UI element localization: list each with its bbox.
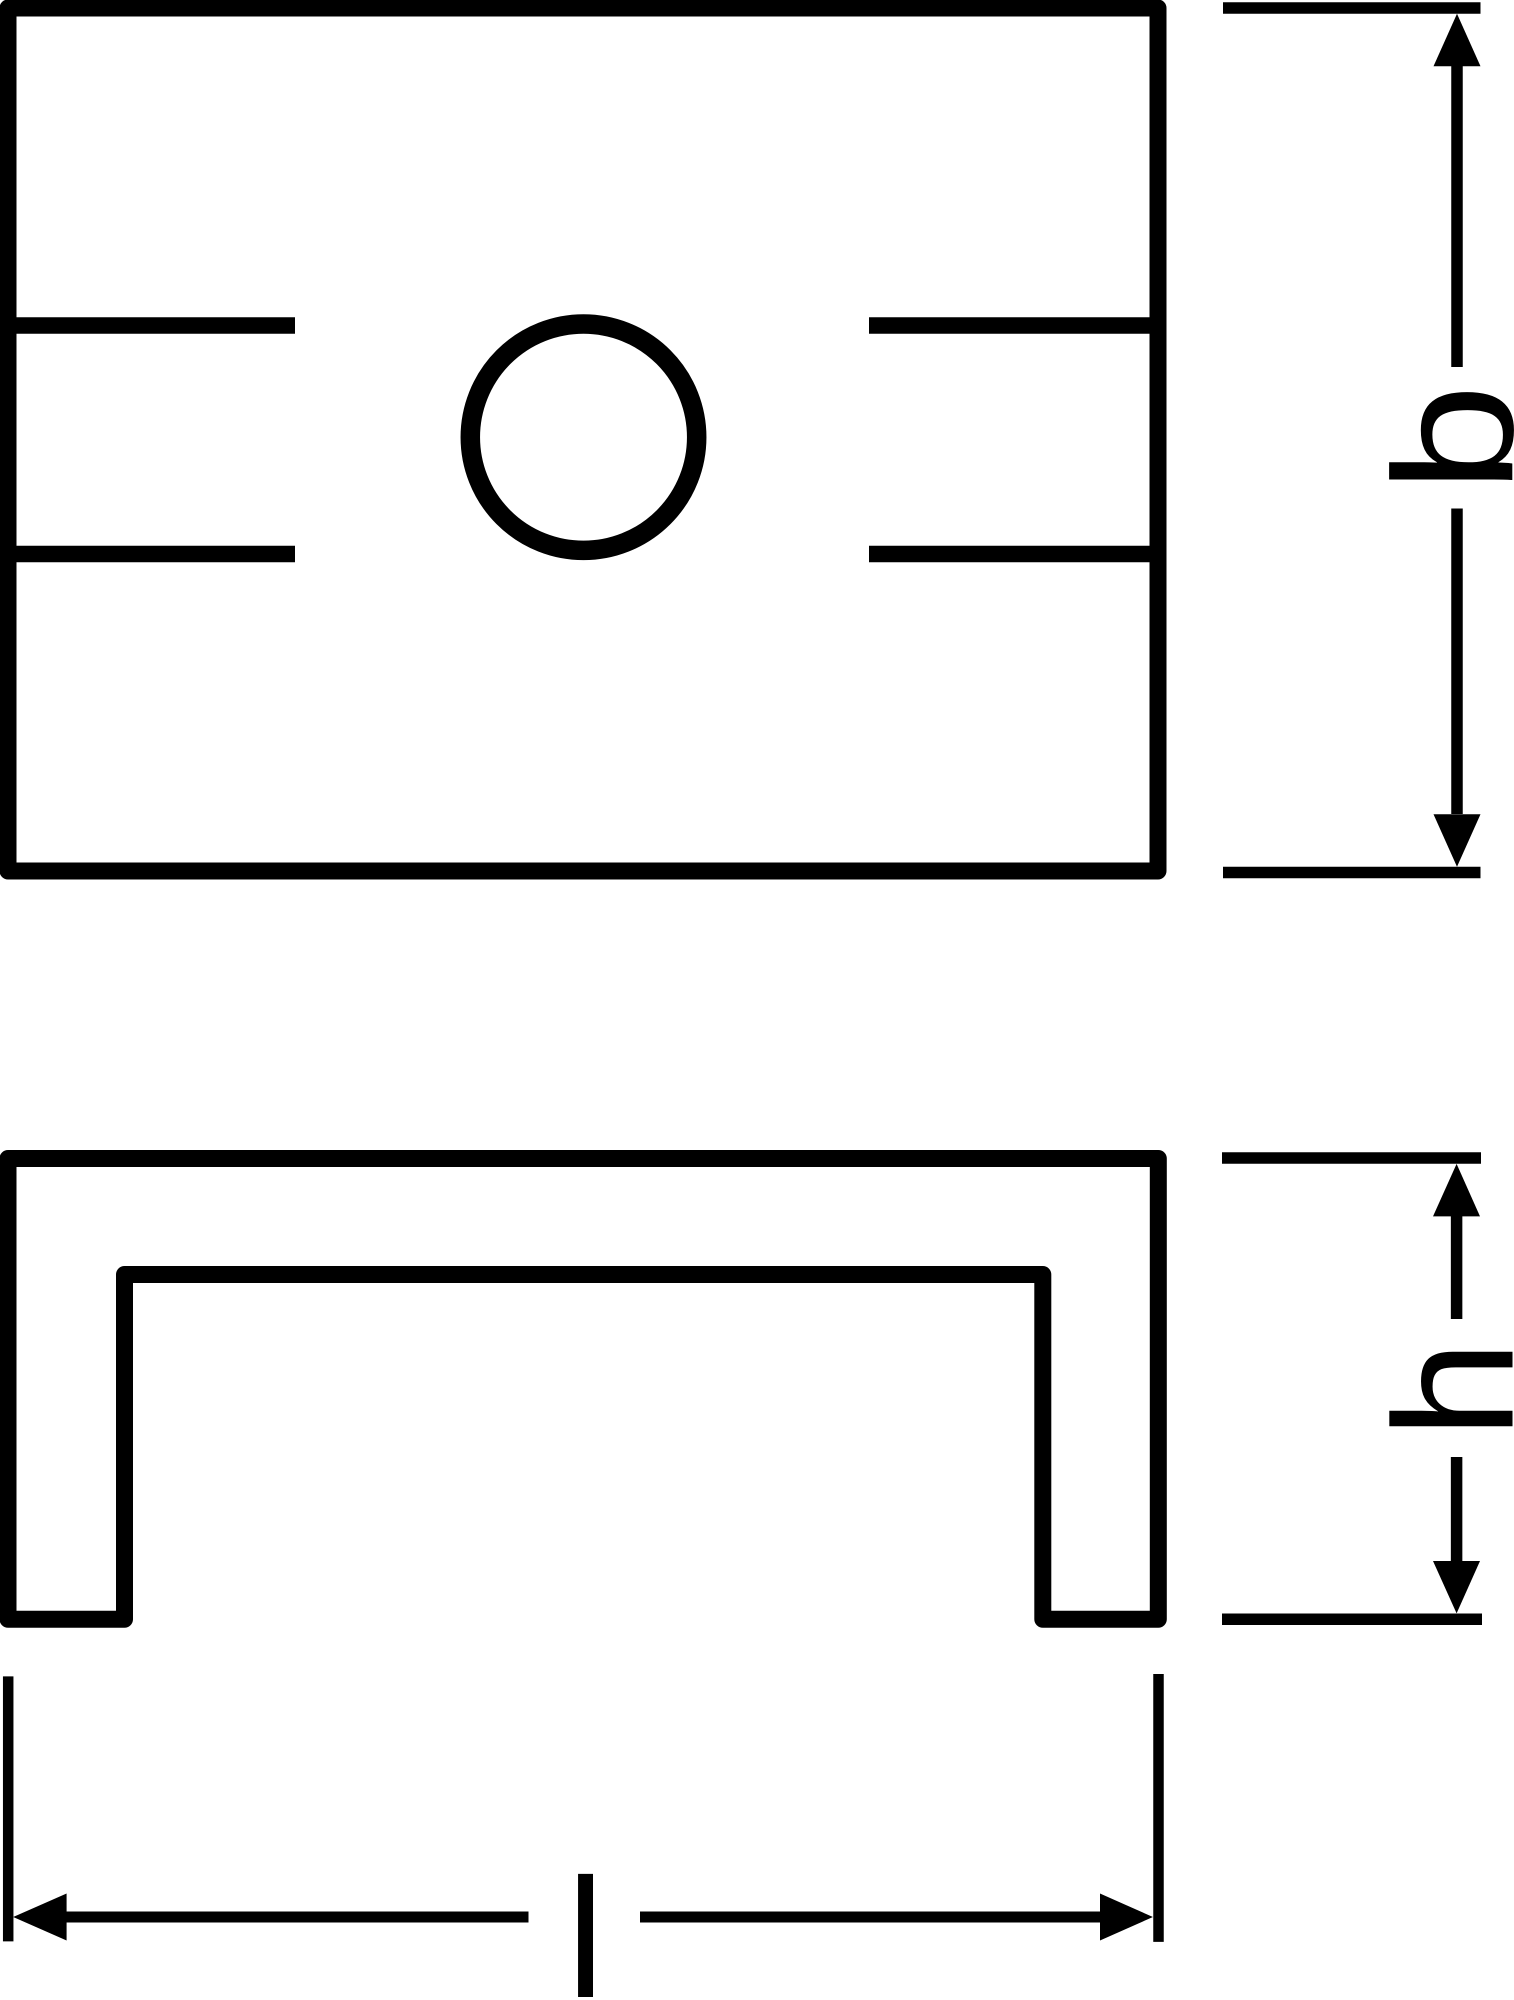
dimension b: top arrowhead xyxy=(1434,14,1481,67)
svg-text:b: b xyxy=(1358,384,1514,493)
top view center hole circle xyxy=(470,324,696,550)
top view slot line upper-left xyxy=(8,317,295,334)
dimension h: top arrowhead xyxy=(1433,1164,1480,1217)
dimension b: lower shaft xyxy=(1451,509,1463,815)
front view U-channel outline xyxy=(8,1159,1158,1620)
dimension h: lower shaft xyxy=(1451,1457,1463,1562)
dimension l: left shaft xyxy=(67,1912,529,1923)
top view slot line upper-right xyxy=(869,317,1158,334)
dimension b: bottom extension line xyxy=(1223,867,1481,879)
svg-text:l: l xyxy=(567,1844,605,2000)
dimension l: left arrowhead xyxy=(13,1894,66,1941)
dimension l: right arrowhead xyxy=(1100,1894,1153,1941)
top view slot line lower-right xyxy=(869,546,1158,563)
top view outer rectangle xyxy=(8,8,1158,871)
dimension h: bottom arrowhead xyxy=(1433,1561,1480,1613)
dimension h: bottom extension line xyxy=(1222,1613,1482,1625)
dimension l: right extension tick xyxy=(1153,1674,1164,1942)
dimension l: right shaft xyxy=(640,1912,1100,1923)
dimension h: upper shaft xyxy=(1451,1216,1463,1319)
dimension b: upper shaft xyxy=(1451,66,1463,367)
dimension b: bottom arrowhead xyxy=(1434,814,1481,867)
dimension h: top extension line xyxy=(1222,1152,1481,1164)
svg-text:h: h xyxy=(1359,1340,1514,1438)
dimension b: top extension line xyxy=(1223,2,1481,14)
top view slot line lower-left xyxy=(8,546,295,563)
dimension l: left extension tick xyxy=(3,1676,14,1941)
